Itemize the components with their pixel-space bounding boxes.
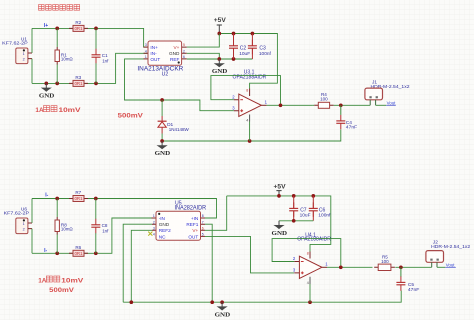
junction bottom rail at C1	[94, 82, 98, 86]
power +5V (top)	[214, 18, 226, 33]
resistor R2 0R1	[69, 20, 88, 32]
svg-text:1nf: 1nf	[102, 59, 109, 64]
svg-text:Vout: Vout	[387, 100, 397, 105]
svg-text:4: 4	[246, 118, 248, 122]
junction caps bottom at C2	[232, 57, 236, 61]
wire U5 REF1 to gnd rail	[205, 224, 212, 302]
svg-text:R2: R2	[75, 20, 81, 25]
svg-text:10mΩ: 10mΩ	[61, 56, 74, 61]
wire bottom rail bottom-block	[32, 252, 73, 254]
svg-text:OPA2188AIDR: OPA2188AIDR	[297, 236, 331, 242]
junction D1 tap	[160, 98, 164, 102]
wire top rail bottom-block	[32, 198, 73, 200]
junction caps bottom at C7	[292, 219, 296, 223]
svg-text:5: 5	[183, 43, 185, 47]
junction C5 tap	[399, 265, 403, 269]
wire R5 to J2	[395, 266, 431, 268]
svg-text:500mV: 500mV	[118, 113, 144, 120]
capacitor C6 100nf	[312, 196, 314, 221]
capacitor C8 1nf	[95, 199, 97, 220]
IC U5 INA282AIDR	[148, 201, 207, 241]
junction rail at C7	[292, 194, 296, 198]
svg-text:IN+: IN+	[150, 45, 158, 50]
svg-text:NC: NC	[159, 234, 166, 239]
capacitor C1 1nf	[95, 28, 97, 49]
svg-text:2: 2	[23, 58, 25, 62]
op-amp U4.1 OPA2188AIDR	[293, 232, 331, 284]
svg-text:1: 1	[153, 214, 155, 218]
junction bottom rail at GND	[44, 82, 48, 86]
svg-text:1nf: 1nf	[102, 229, 109, 234]
resistor R4 100	[313, 104, 314, 106]
wire +5V rail top	[219, 34, 277, 89]
IC U2 INA213AIDCKR	[137, 41, 186, 78]
svg-text:GND: GND	[272, 230, 288, 237]
svg-text:C6: C6	[319, 208, 326, 214]
wire U1 pin2 to bottom rail	[31, 59, 33, 84]
svg-text:1A: 1A	[38, 277, 47, 284]
capacitor C5 47nF	[400, 267, 402, 277]
resistor R3 0R1	[69, 75, 88, 87]
connector J2 HDR-M-2.54_1x2	[426, 240, 471, 268]
wire +5V rail bottom	[227, 196, 331, 252]
junction bottom rail at R1	[55, 82, 59, 86]
junction +5V at C3	[251, 32, 255, 36]
ground (mid, D1)	[155, 141, 171, 157]
svg-text:100nf: 100nf	[318, 213, 331, 219]
svg-text:1: 1	[145, 55, 147, 59]
svg-text:R6: R6	[75, 245, 81, 250]
wire U5 GND to gnd rail	[123, 224, 152, 302]
svg-text:C7: C7	[300, 208, 307, 214]
junction on I+ rail at R1	[55, 27, 59, 31]
svg-text:GND: GND	[215, 311, 231, 318]
junction output node U4.1	[339, 265, 343, 269]
svg-text:HDR-M-2.54_1x2: HDR-M-2.54_1x2	[431, 244, 470, 250]
resistor R1 10mOhm	[56, 28, 58, 47]
power +5V (bottom)	[274, 184, 286, 196]
svg-text:4: 4	[145, 49, 147, 53]
svg-text:C8: C8	[102, 223, 108, 228]
svg-text:V+: V+	[174, 45, 180, 50]
wire U5 REF2 to gnd rail	[131, 230, 152, 302]
svg-text:I-: I-	[45, 193, 48, 199]
svg-text:5: 5	[202, 233, 204, 237]
junction bottom rail at C8	[94, 251, 98, 255]
wire U2 V+ to +5V	[187, 34, 220, 48]
ground (under caps top block)	[212, 59, 228, 75]
svg-text:GND: GND	[159, 222, 170, 227]
svg-text:2: 2	[153, 220, 155, 224]
svg-text:10mV: 10mV	[59, 107, 82, 114]
junction +5V at stem	[217, 32, 221, 36]
junction gnd rail at GND sym	[220, 300, 224, 304]
svg-text:7: 7	[202, 220, 204, 224]
svg-text:4: 4	[307, 281, 309, 285]
svg-text:1A: 1A	[35, 107, 44, 114]
svg-text:GND: GND	[212, 68, 228, 75]
diode D1 1N4148W	[158, 100, 190, 141]
svg-text:OUT: OUT	[150, 57, 160, 62]
svg-text:KF7.62-2P: KF7.62-2P	[2, 40, 28, 46]
svg-text:R7: R7	[75, 190, 81, 195]
svg-text:8: 8	[246, 89, 248, 93]
capacitor C4 47nF	[340, 105, 342, 115]
svg-text:47nF: 47nF	[408, 287, 420, 292]
svg-text:0R1: 0R1	[74, 251, 83, 256]
wire feedback op-amp U3.1	[211, 76, 281, 106]
annotation 1A=10mV (bottom)	[38, 276, 84, 284]
wire U2 REF / caps bottom	[187, 58, 253, 60]
svg-text:100: 100	[381, 259, 389, 264]
wire op-amp output	[267, 104, 313, 106]
svg-text:REF1: REF1	[186, 222, 198, 227]
capacitor C2 10uF	[233, 34, 235, 60]
svg-text:REF2: REF2	[159, 228, 171, 233]
svg-text:10mV: 10mV	[61, 277, 84, 284]
junction rail at C8	[94, 197, 98, 201]
junction on I+ rail at C1	[94, 27, 98, 31]
svg-text:0R1: 0R1	[74, 81, 83, 86]
svg-text:1: 1	[23, 52, 25, 56]
resistor R5 100	[374, 254, 395, 270]
svg-text:1: 1	[23, 222, 25, 226]
capacitor C3 100nf	[251, 34, 253, 60]
junction rail at R8	[55, 197, 59, 201]
junction output node U3.1	[279, 103, 283, 107]
svg-text:4: 4	[153, 233, 155, 237]
wire top rail I+	[32, 27, 73, 29]
svg-text:6: 6	[202, 226, 204, 230]
svg-text:GND: GND	[39, 93, 55, 100]
svg-text:1N4148W: 1N4148W	[169, 127, 190, 132]
svg-text:IN-: IN-	[150, 51, 157, 56]
junction gnd rail at op-amp V-	[248, 139, 252, 143]
resistor R7 0R1	[69, 190, 88, 202]
ground (top-left)	[39, 83, 55, 99]
svg-text:C1: C1	[102, 53, 108, 58]
junction REF rail GND	[217, 57, 221, 61]
ground (bottom rail)	[215, 302, 231, 318]
svg-text:+5V: +5V	[274, 184, 286, 190]
junction gnd rail at D1	[160, 139, 164, 143]
title text 低端直流电流	[39, 5, 80, 11]
wire gnd rail bottom	[123, 291, 401, 303]
wire U6 pin2 to bottom rail	[31, 229, 33, 254]
ground (under caps bottom block)	[272, 221, 288, 237]
wire op-amp U4.1 V- to gnd rail	[309, 284, 311, 302]
junction +5V at C2	[232, 32, 236, 36]
wire R4 to J1	[334, 104, 371, 106]
wire U2 GND down	[187, 53, 220, 59]
svg-text:3: 3	[145, 43, 147, 47]
connector U6 KF7.62-2P	[4, 206, 32, 233]
wire caps bottom (bottom block)	[279, 220, 313, 222]
svg-text:REF: REF	[170, 57, 180, 62]
connector U1 KF7.62-2P	[2, 36, 32, 63]
svg-text:KF7.62-2P: KF7.62-2P	[4, 210, 30, 216]
svg-text:Vout: Vout	[446, 262, 456, 267]
svg-text:10mΩ: 10mΩ	[61, 226, 74, 231]
wire U5 OUT to op-amp pin3	[205, 236, 294, 273]
wire U2 OUT to op-amp pin3	[125, 59, 234, 111]
svg-text:+IN: +IN	[191, 216, 198, 221]
svg-text:47nF: 47nF	[346, 125, 358, 130]
wire op-amp V- to gnd rail	[249, 122, 251, 142]
svg-text:-IN: -IN	[159, 216, 165, 221]
junction gnd rail at REF2	[129, 300, 133, 304]
junction C4 tap	[339, 103, 343, 107]
svg-text:0R1: 0R1	[74, 26, 83, 31]
svg-text:10uF: 10uF	[239, 51, 250, 57]
wire op-amp U4.1 output	[327, 266, 373, 268]
svg-text:500mV: 500mV	[49, 287, 74, 294]
svg-text:INA282AIDR: INA282AIDR	[175, 206, 207, 212]
svg-text:C2: C2	[240, 46, 247, 52]
svg-text:+5V: +5V	[214, 18, 226, 24]
svg-text:C3: C3	[259, 46, 266, 52]
svg-text:3: 3	[153, 226, 155, 230]
svg-text:OUT: OUT	[188, 234, 198, 239]
junction gnd rail at op-amp V-	[308, 300, 312, 304]
svg-text:6: 6	[183, 55, 185, 59]
svg-text:2: 2	[23, 228, 25, 232]
junction gnd rail at REF1	[210, 300, 214, 304]
resistor R8 10mOhm	[56, 199, 58, 218]
svg-text:GND: GND	[155, 150, 171, 157]
svg-text:0R1: 0R1	[74, 196, 83, 201]
wire bottom rail top-block	[32, 82, 73, 84]
annotation 1A=10mV (top)	[35, 106, 81, 114]
wire U1 pin1 to I+ rail	[31, 28, 33, 53]
svg-text:U2: U2	[162, 72, 169, 78]
svg-text:8: 8	[307, 252, 309, 256]
wire U6 pin1 to rail	[31, 199, 33, 224]
svg-text:2: 2	[183, 49, 185, 53]
svg-text:100nf: 100nf	[259, 51, 272, 57]
wire gnd rail mid	[162, 130, 341, 142]
svg-text:R3: R3	[75, 75, 81, 80]
svg-text:100: 100	[320, 97, 328, 102]
junction rail at +5V stem	[277, 194, 281, 198]
node Vout (bottom)	[437, 262, 456, 267]
svg-text:GND: GND	[169, 51, 180, 56]
capacitor C7 10uF	[293, 196, 295, 221]
resistor R6 0R1	[69, 245, 88, 256]
connector J1 HDR-M-2.54_1x2	[365, 80, 410, 106]
junction bottom rail at R8	[55, 251, 59, 255]
svg-text:V+: V+	[192, 228, 198, 233]
wire U5 V+ to +5V rail	[205, 196, 227, 230]
node Vout (top)	[376, 100, 397, 105]
junction rail at C6	[311, 194, 315, 198]
wire feedback op-amp U4.1	[272, 239, 341, 268]
svg-text:8: 8	[202, 214, 204, 218]
op-amp U3.1 OPA2188AIDR	[232, 70, 267, 123]
svg-text:10uF: 10uF	[300, 213, 311, 219]
